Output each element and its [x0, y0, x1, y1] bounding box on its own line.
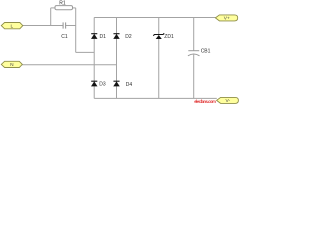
wire bridge left column D1 D3: [93, 18, 95, 99]
wire bridge right column D2 D4: [116, 18, 118, 99]
wire CB1 column lower: [193, 55, 195, 99]
wire C1 right plate to right vertical: [66, 25, 76, 27]
diode D2: [113, 34, 120, 39]
svg-text:D3: D3: [99, 82, 106, 88]
svg-text:D4: D4: [126, 82, 133, 88]
wire N input to D2 D4 column: [22, 64, 117, 66]
svg-text:V+: V+: [224, 16, 230, 22]
wire right vertical down to jog: [75, 8, 77, 53]
svg-text:D2: D2: [125, 34, 132, 40]
wire R1 left vertical: [50, 8, 52, 26]
svg-text:elecfans.com: elecfans.com: [194, 99, 216, 104]
svg-text:R1: R1: [59, 0, 66, 6]
port V+: [215, 15, 237, 22]
wire bottom rail V-: [94, 97, 217, 99]
wire L input to C1 left plate: [23, 25, 64, 27]
capacitor CB1: [188, 51, 200, 56]
wire R1 left stub: [51, 7, 55, 9]
diode D4: [113, 81, 120, 86]
svg-text:D1: D1: [100, 34, 107, 40]
port N: [1, 61, 22, 68]
svg-text:CB1: CB1: [201, 48, 211, 54]
wire horizontal jog into bridge left column: [76, 51, 95, 53]
wire CB1 column upper: [193, 18, 195, 51]
diode D3: [91, 81, 98, 86]
svg-text:L: L: [10, 23, 13, 29]
wire ZD1 column: [158, 18, 160, 99]
wire R1 right stub: [73, 7, 76, 9]
zener diode ZD1: [153, 33, 164, 39]
svg-text:N: N: [10, 62, 14, 68]
capacitor C1: [63, 22, 66, 28]
wire top rail V+: [94, 17, 215, 19]
port V-: [217, 97, 239, 104]
diode D1: [91, 34, 98, 39]
resistor R1: [55, 6, 73, 10]
svg-text:C1: C1: [61, 34, 68, 40]
svg-text:ZD1: ZD1: [164, 34, 174, 40]
svg-text:V-: V-: [226, 98, 231, 104]
port L: [1, 23, 23, 30]
